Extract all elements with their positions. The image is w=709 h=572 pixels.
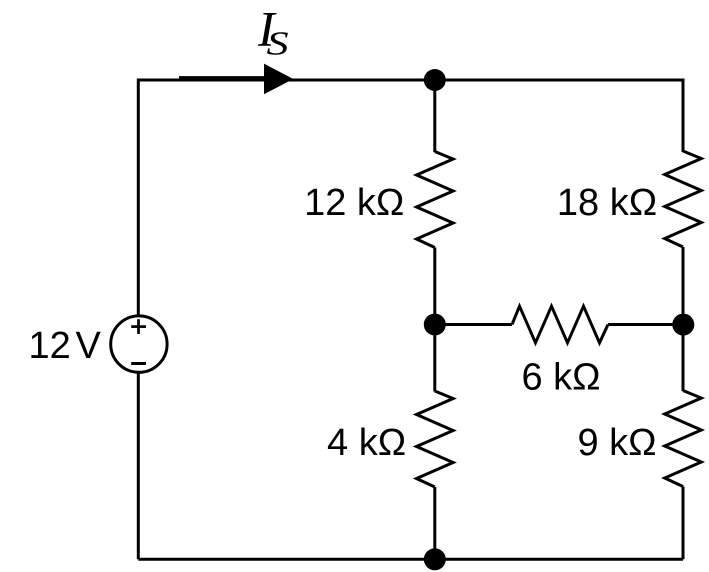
resistor 18 kOhm zigzag	[665, 151, 702, 247]
wire: right branch from R 9k to bottom-right corner	[682, 487, 685, 560]
wire: middle branch from R 4k to bottom node	[433, 487, 436, 559]
node C: middle-right junction dot	[672, 314, 694, 336]
label I_S	[257, 1, 289, 63]
voltage source V1 circle	[111, 316, 167, 372]
wire: middle branch from top node to R 12k	[433, 80, 436, 152]
current arrow I_S tail	[179, 76, 270, 80]
wire: left branch lower (source bottom to bottom-left corner)	[137, 372, 140, 559]
voltage source plus sign	[131, 319, 146, 334]
resistor 9 kOhm zigzag	[665, 391, 702, 487]
svg-text:12 kΩ: 12 kΩ	[304, 182, 404, 224]
wire: left branch upper (corner down to source top)	[137, 79, 140, 317]
svg-text:12: 12	[29, 325, 71, 367]
resistor 4 kOhm zigzag	[417, 391, 454, 487]
current arrow I_S head	[264, 64, 293, 95]
wire: top from left corner to top-right corner	[138, 79, 683, 82]
svg-text:S: S	[267, 24, 289, 62]
node A: top middle junction dot	[424, 69, 446, 91]
resistor 6 kOhm zigzag	[512, 306, 608, 343]
resistor 12 kOhm zigzag	[417, 152, 454, 248]
svg-text:18 kΩ: 18 kΩ	[557, 182, 657, 224]
wire: from 6k resistor to node C	[608, 323, 683, 326]
node D: bottom junction dot	[424, 548, 446, 570]
wire: middle branch from node B to R 4k	[433, 325, 436, 392]
svg-text:6 kΩ: 6 kΩ	[521, 356, 600, 398]
svg-text:V: V	[76, 325, 102, 367]
node B: middle-left junction dot	[424, 314, 446, 336]
wire: from node B to 6k resistor	[435, 323, 512, 326]
wire: right branch from R 18k to node C	[682, 247, 685, 325]
label 12 V	[29, 325, 102, 367]
svg-text:4 kΩ: 4 kΩ	[327, 422, 406, 464]
wire: right branch from top-right corner to R 18k	[682, 79, 685, 153]
wire: middle branch from R 12k to middle node	[433, 248, 436, 325]
svg-text:9 kΩ: 9 kΩ	[577, 422, 656, 464]
wire: bottom from bottom-left corner to bottom-right corner	[138, 558, 683, 561]
wire: right branch from node C to R 9k	[682, 325, 685, 391]
voltage source minus sign	[131, 362, 146, 365]
